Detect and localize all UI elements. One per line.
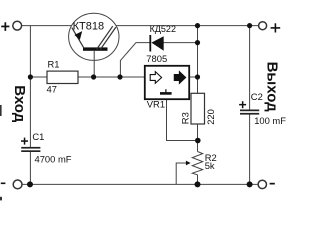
junction dot left rail R1 xyxy=(28,74,33,79)
wire diode cathode to node xyxy=(120,43,149,77)
terminal input plus circle xyxy=(13,21,22,30)
svg-text:Выход: Выход xyxy=(264,62,281,113)
regulator output solid arrow xyxy=(174,72,185,84)
diode VD1 triangle xyxy=(151,36,163,51)
potentiometer R2 wiper arrow xyxy=(186,161,191,166)
svg-text:C1: C1 xyxy=(32,131,44,142)
resistor R1 body xyxy=(47,71,78,83)
transistor emitter line xyxy=(72,28,84,49)
junction dot C2 top xyxy=(247,23,252,28)
output minus sign xyxy=(270,183,275,185)
wire R1 left xyxy=(30,76,47,78)
svg-text:100 mF: 100 mF xyxy=(254,115,286,126)
diode VD1 cathode bar xyxy=(149,35,151,52)
wire 7805 output to right rail xyxy=(190,76,198,78)
junction dot C2 bottom xyxy=(247,181,253,187)
wire R1 right to 7805 input xyxy=(78,76,145,78)
junction dot diode anode rail xyxy=(195,40,200,45)
svg-text:220: 220 xyxy=(205,109,216,125)
edge artifact left bottom xyxy=(0,197,2,201)
wire C2 branch lower xyxy=(249,114,251,184)
junction dot R3 bottom node xyxy=(195,138,201,144)
svg-text:7805: 7805 xyxy=(146,53,167,64)
regulator input hollow arrow xyxy=(150,72,161,84)
capacitor C2 plus sign xyxy=(239,101,246,108)
wire VR1 ground pin xyxy=(167,100,198,141)
input plus sign xyxy=(1,22,9,31)
terminal output minus circle xyxy=(258,180,266,188)
wire left rail lower xyxy=(29,151,31,184)
wire C2 branch upper xyxy=(249,26,251,110)
svg-text:5k: 5k xyxy=(205,160,215,171)
junction dot diode branch node xyxy=(117,74,122,79)
svg-text:C2: C2 xyxy=(251,91,263,102)
svg-text:Вход: Вход xyxy=(11,85,28,123)
svg-text:КД522: КД522 xyxy=(150,24,176,34)
svg-text:47: 47 xyxy=(47,84,57,95)
output plus sign xyxy=(271,23,281,32)
capacitor C1 top plate xyxy=(21,147,40,149)
wire transistor collector to top-right terminal xyxy=(116,25,259,27)
svg-text:R3: R3 xyxy=(180,112,191,124)
svg-text:VR1: VR1 xyxy=(147,98,165,109)
potentiometer R2 wiper wire xyxy=(176,163,187,184)
svg-text:R1: R1 xyxy=(48,59,60,70)
svg-text:4700 mF: 4700 mF xyxy=(35,154,72,165)
regulator ground symbol xyxy=(165,89,167,92)
wire bottom rail xyxy=(22,183,258,185)
wire right rail top segment xyxy=(197,26,199,94)
junction dot bottom left xyxy=(27,181,33,187)
potentiometer R2 zigzag xyxy=(192,152,202,175)
resistor R3 body xyxy=(191,93,205,124)
transistor emitter arrow xyxy=(74,31,82,40)
wire right rail R2 bottom xyxy=(197,175,199,185)
input minus sign xyxy=(1,183,6,185)
terminal input minus circle xyxy=(13,180,22,189)
edge artifact left middle xyxy=(0,105,2,116)
transistor base lead xyxy=(93,51,95,77)
capacitor C1 plus sign xyxy=(21,138,28,145)
transistor base bar xyxy=(83,47,108,50)
junction dot R2 bottom rail xyxy=(195,181,201,187)
wire diode anode to right rail xyxy=(164,42,198,44)
terminal output plus circle xyxy=(259,22,267,30)
junction dot base node xyxy=(91,74,96,79)
wire right rail R3 bottom to node xyxy=(197,124,199,152)
capacitor C1 bottom plate xyxy=(21,150,40,152)
wire top input to transistor emitter xyxy=(22,25,72,27)
transistor Q1 KT818 circle xyxy=(69,13,119,60)
regulator U1 7805 box xyxy=(145,66,189,99)
svg-text:КТ818: КТ818 xyxy=(73,20,104,32)
junction dot right rail top xyxy=(195,23,200,28)
junction dot regulator output xyxy=(195,74,200,79)
wire left rail upper xyxy=(29,26,31,147)
capacitor C2 top plate xyxy=(240,110,259,112)
capacitor C2 bottom plate xyxy=(240,113,259,115)
transistor collector double line xyxy=(97,26,113,49)
